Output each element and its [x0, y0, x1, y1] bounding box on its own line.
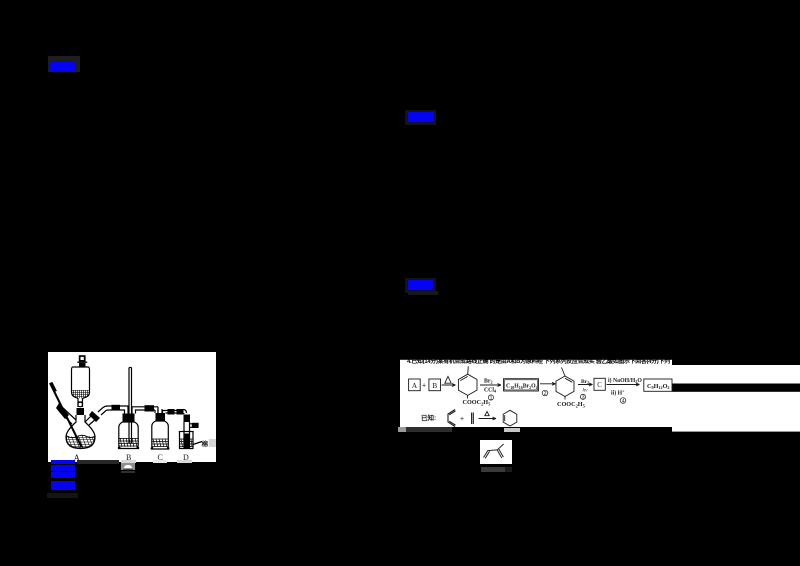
darker segment of bar: [505, 467, 513, 471]
circled 4: [620, 398, 626, 405]
arrow 1: [442, 384, 456, 387]
gray bar under isoprene box: [481, 467, 505, 471]
cotton label gray backing: [209, 439, 216, 447]
funnel lower stopper into flask: [77, 408, 85, 415]
svg-text:已知:: 已知:: [421, 413, 436, 422]
D inner bottle dark contents: [184, 434, 189, 449]
svg-text:hv: hv: [583, 388, 589, 394]
svg-text:C10H16Br2O2: C10H16Br2O2: [506, 384, 538, 390]
answer label backing 3 (right column lower): [405, 278, 436, 293]
svg-text:COOC2H5: COOC2H5: [557, 401, 586, 409]
D side tube: [190, 424, 193, 428]
svg-text:C: C: [597, 382, 602, 389]
circled 1: [488, 395, 493, 402]
funnel stopcock: [78, 402, 83, 407]
ring 2 ester bond: [564, 397, 566, 400]
blue answer block line 3: [51, 472, 75, 478]
D beaker liquid hatch: [180, 439, 193, 447]
tube C to D: [163, 411, 169, 414]
C liquid hatch: [152, 439, 168, 447]
B liquid hatch: [119, 439, 138, 447]
box B: [429, 379, 441, 391]
flask right neck: [85, 414, 97, 425]
arrow 5 (long): [607, 383, 640, 386]
answer label blue text 1: [50, 62, 75, 71]
svg-text:A: A: [412, 381, 418, 390]
flask A body: [66, 415, 95, 449]
ring 2 methyl: [562, 368, 566, 377]
isoprene thumbnail (white box): [480, 440, 512, 464]
delta 1: [445, 376, 451, 383]
given arrow: [479, 417, 497, 420]
given: dienophile (vertical): [472, 413, 474, 425]
svg-text:B: B: [432, 381, 437, 390]
given delta: [485, 412, 489, 416]
B bottle body: [119, 422, 139, 449]
gray shadow strip under D label: [177, 460, 192, 463]
svg-text:2: 2: [544, 391, 547, 397]
circled 3: [580, 394, 585, 401]
answer label blue text 3: [408, 280, 433, 290]
tube into B: [120, 406, 128, 414]
light gray strip under product hexagon: [504, 428, 520, 432]
black redaction bar right: [672, 384, 800, 392]
blue answer text line 1: [51, 460, 75, 464]
svg-text:3: 3: [582, 395, 585, 401]
given product hexagon: [503, 410, 517, 426]
given: diene shape: [448, 410, 456, 427]
gas delivery elbow from flask: [98, 406, 112, 412]
ring 2 double bond: [565, 378, 572, 382]
answer label box 1 (top-left gray backing): [48, 56, 80, 72]
B stopper: [123, 414, 135, 423]
svg-text:CCl4: CCl4: [484, 387, 497, 393]
box C9H12O2: [644, 379, 672, 391]
dark shadow bar under scheme left: [406, 427, 452, 432]
blue answer block line 2: [51, 465, 75, 471]
svg-text:Br2: Br2: [484, 379, 493, 385]
svg-text:+: +: [460, 416, 464, 423]
tube B to C: [132, 407, 158, 414]
svg-text:Br2: Br2: [581, 379, 589, 385]
svg-text:COOC2H5: COOC2H5: [463, 399, 492, 407]
box A: [409, 379, 421, 391]
svg-text:i) NaOH/H2O: i) NaOH/H2O: [608, 377, 642, 384]
blue answer block line 4: [51, 481, 76, 491]
svg-text:C9H12O2: C9H12O2: [647, 383, 670, 390]
right neck stopper: [89, 411, 100, 422]
thermometer rod: [50, 383, 82, 447]
svg-text:1: 1: [490, 395, 493, 401]
ring 1 ester bond: [466, 395, 468, 398]
dropping funnel stopper (square ring): [79, 355, 86, 361]
answer label backing 2 (right column): [405, 110, 436, 125]
gray shadow strip under C label: [153, 460, 168, 463]
dark strip under dish: [121, 471, 135, 473]
connector C-D 2 (black): [177, 409, 184, 415]
gray shadow bottom-left of scheme (light square): [398, 427, 406, 432]
product double bond: [504, 415, 506, 421]
elbow down into D: [183, 410, 187, 415]
faint gray question trace right of line 1: [77, 460, 119, 464]
D beaker: [180, 432, 194, 449]
white backing right part: [672, 365, 800, 432]
thermometer stopper bulge: [56, 403, 69, 419]
faint text trace under blue 3: [408, 291, 438, 295]
D inner bottle stopper: [184, 415, 191, 423]
svg-text:4.已知(14分)某有机合成路线正确 的是由A和B为原料经: 4.已知(14分)某有机合成路线正确 的是由A和B为原料经 下列系列反应合成实 …: [407, 358, 670, 365]
ring 1 (hexagon): [458, 374, 477, 395]
flask liquid hatch: [67, 435, 95, 448]
funnel liquid hatch: [72, 391, 89, 397]
cotton label leader: [193, 442, 202, 445]
gray shadow strip under B label: [121, 460, 136, 463]
delivery tube connector (black): [112, 405, 121, 411]
box C10H16Br2O2: [504, 379, 539, 391]
isoprene skeleton: [484, 444, 504, 458]
evaporating-dish thumbnail (gray with white dome): [121, 463, 135, 470]
ring 2 (hexagon): [556, 376, 574, 397]
svg-text:+: +: [422, 383, 426, 390]
connector C-D 1 (black): [168, 409, 175, 415]
white backing left part: [400, 360, 672, 427]
flask left neck (thermometer port): [59, 407, 76, 424]
arrow 4: [578, 383, 593, 386]
dark surround of blue block: [47, 493, 78, 498]
C stopper: [156, 413, 166, 421]
answer label blue text 2: [408, 112, 434, 122]
dropping funnel body: [72, 367, 90, 402]
ring 1 double bond: [460, 376, 467, 380]
svg-text:4: 4: [622, 399, 625, 405]
B tall tube: [128, 368, 130, 444]
box C: [594, 378, 605, 390]
svg-text:棉: 棉: [202, 439, 209, 448]
arrow 3: [540, 382, 556, 385]
D inner bottle: [184, 422, 190, 448]
C bottle body: [151, 421, 169, 449]
connector B-C (black): [145, 405, 155, 411]
circled 2: [542, 390, 548, 397]
arrow 2: [480, 384, 501, 387]
ring 1 methyl: [467, 366, 470, 374]
